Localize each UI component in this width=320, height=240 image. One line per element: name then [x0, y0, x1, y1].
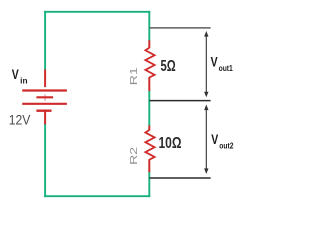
wire: left vertical upper (green) [44, 11, 46, 70]
battery inner connector (light) [44, 94, 46, 100]
svg-text:out2: out2 [219, 141, 234, 150]
svg-text:V: V [12, 67, 19, 82]
svg-text:V: V [211, 55, 218, 70]
R1 top lead [148, 40, 150, 48]
svg-text:out1: out1 [219, 64, 234, 73]
battery positive lead [44, 70, 46, 88]
battery plate 1 long [22, 89, 67, 91]
wire: left vertical lower (green) [44, 124, 46, 197]
battery negative lead [44, 111, 46, 125]
measurement arrow V_out2 [204, 105, 208, 175]
R2 zigzag body [145, 130, 154, 160]
wire: bottom horizontal (green) [44, 195, 150, 197]
svg-text:R2: R2 [128, 147, 140, 165]
R1 zigzag body [145, 48, 154, 78]
wire: right vertical upper segment (green) [148, 11, 150, 41]
resistor R2 10ohm [145, 126, 154, 173]
wire: middle tap (node B) [149, 100, 210, 102]
R2 top lead [148, 126, 150, 131]
battery plate 3 long [22, 103, 67, 105]
svg-text:12V: 12V [9, 112, 31, 128]
R2 bottom lead [148, 159, 150, 172]
svg-text:in: in [20, 76, 28, 85]
battery plate 2 short [36, 96, 53, 98]
battery plate 4 short [36, 109, 51, 111]
wire: right vertical middle segment (green) [148, 90, 150, 126]
measurement arrow V_out1 [204, 31, 208, 97]
svg-text:R1: R1 [128, 67, 140, 85]
wire: bottom tap (node C) [149, 177, 210, 179]
resistor R1 5ohm [145, 40, 154, 91]
battery V1 12V [22, 70, 67, 125]
wire: right vertical lower segment (green) [148, 172, 150, 197]
wire: top horizontal (green) [44, 11, 150, 13]
wire: top tap (node A) [149, 27, 210, 29]
R1 bottom lead [148, 77, 150, 91]
svg-text:5Ω: 5Ω [161, 58, 176, 75]
svg-text:10Ω: 10Ω [159, 135, 182, 152]
svg-text:V: V [211, 132, 218, 147]
